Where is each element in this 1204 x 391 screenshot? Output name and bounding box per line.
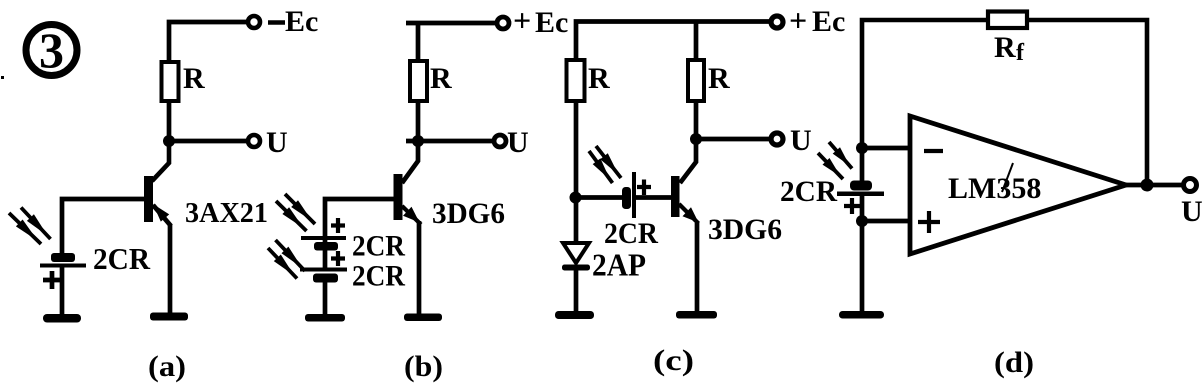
node base junction (c) — [570, 192, 582, 204]
svg-text:R: R — [183, 62, 205, 95]
wire node to U terminal (a) — [169, 139, 247, 144]
svg-text:LM358: LM358 — [948, 172, 1041, 205]
op-amp U1 LM358 triangle — [910, 116, 1126, 254]
terminal U (c) — [771, 133, 783, 145]
scan artifact stroke over LM358 — [1002, 163, 1013, 192]
wire right branch to node (c) — [694, 101, 699, 139]
op-amp plus input symbol — [918, 211, 940, 233]
resistor R (a) — [162, 62, 179, 101]
photodiode 2AP (c) — [562, 243, 590, 271]
photocell 2CR plates (c) — [622, 172, 636, 218]
svg-text:U: U — [790, 124, 812, 157]
svg-text:2CR: 2CR — [93, 241, 151, 276]
svg-text:R: R — [708, 62, 730, 95]
transistor 3DG6 emitter with NPN arrow (b) — [402, 206, 421, 314]
wire noninverting input (d) — [862, 219, 910, 224]
resistor R right (c) — [688, 60, 704, 101]
wire cell top (d) — [860, 148, 865, 181]
light arrows into 2CR cell 2 (b) — [268, 240, 305, 279]
terminal U (b) — [494, 135, 506, 147]
wire top rail (b) — [406, 23, 495, 61]
svg-text:(a): (a) — [148, 350, 186, 383]
transistor 3AX21 emitter with PNP arrow — [153, 204, 171, 313]
label -Ec — [268, 5, 318, 38]
wire base lead (b) — [325, 199, 395, 237]
svg-text:2AP: 2AP — [592, 247, 646, 283]
ground bar left (b) — [305, 314, 345, 322]
node collector junction (a) — [163, 135, 175, 147]
resistor Rf (d) — [988, 12, 1027, 29]
photocell 2CR cell 1 plates (b) — [301, 236, 346, 251]
wire top rail (a) — [169, 22, 247, 62]
wire inverting input (d) — [862, 146, 910, 151]
photocell 2CR cell 2 plates (b) — [300, 268, 347, 283]
svg-text:2CR: 2CR — [352, 230, 405, 263]
plus sign of 2CR (c) — [637, 180, 651, 196]
svg-text:(d): (d) — [994, 346, 1034, 379]
terminal U (a) — [248, 135, 260, 147]
terminal +Ec (c) — [771, 16, 783, 28]
op-amp minus input symbol — [924, 149, 943, 153]
light arrows into 2CR cell 1 (b) — [276, 194, 315, 231]
ground bar emitter (a) — [150, 313, 188, 321]
resistor R (b) — [410, 61, 427, 101]
label +Ec (b) — [513, 2, 568, 39]
resistor R left (c) — [567, 60, 585, 101]
svg-text:Ec: Ec — [812, 5, 845, 38]
light arrows into 2CR (d) — [818, 142, 852, 179]
node output junction (d) — [1141, 179, 1154, 192]
plus sign of 2CR cell 1 (b) — [331, 218, 345, 233]
wire between cells (b) — [323, 240, 328, 268]
wire base lead (a) — [62, 199, 144, 254]
svg-text:3DG6: 3DG6 — [708, 213, 782, 246]
ground bar left (c) — [555, 311, 594, 319]
photocell 2CR plates (d) — [837, 181, 884, 197]
svg-text:3: 3 — [39, 22, 64, 78]
transistor Q 3AX21 base bar — [144, 176, 153, 222]
wire cell to plus node (d) — [860, 196, 865, 311]
terminal -Ec — [248, 16, 260, 28]
svg-text:U: U — [1181, 195, 1203, 228]
plus sign of 2CR (a) — [43, 271, 61, 289]
figure number 3 (circled) — [26, 22, 77, 78]
light arrows into 2CR (a) — [9, 208, 51, 245]
svg-text:R: R — [994, 31, 1016, 64]
wire resistor to node (b) — [416, 101, 421, 141]
svg-text:2CR: 2CR — [604, 217, 658, 250]
wire left branch (c) — [574, 101, 579, 244]
light arrows into 2CR (c) — [589, 146, 621, 183]
wire node to U terminal (c) — [696, 137, 769, 142]
speck — [1, 76, 4, 79]
svg-text:3DG6: 3DG6 — [432, 197, 505, 230]
ground bar emitter (b) — [404, 314, 442, 322]
wire collector lead (a) — [152, 141, 169, 181]
wire top rail left (d) — [862, 20, 990, 148]
wire resistor to node (a) — [167, 101, 172, 141]
svg-text:R: R — [430, 62, 452, 95]
svg-text:U: U — [266, 126, 288, 159]
transistor 3DG6 emitter with NPN arrow (c) — [679, 204, 699, 312]
svg-text:Ec: Ec — [535, 6, 568, 39]
transistor Q 3DG6 base bar (c) — [671, 176, 680, 217]
wire op-amp output (d) — [1126, 183, 1183, 188]
wire node to 2CR cell (c) — [575, 195, 623, 200]
wire cell 2 to ground (b) — [323, 282, 328, 315]
ground bar emitter (c) — [676, 311, 717, 319]
svg-text:R: R — [588, 62, 610, 95]
label +Ec (c) — [789, 2, 845, 38]
svg-text:Ec: Ec — [285, 5, 318, 38]
svg-text:f: f — [1016, 40, 1025, 66]
photocell 2CR (a) plates — [40, 253, 86, 268]
svg-text:U: U — [507, 126, 529, 159]
node collector junction (c) — [690, 133, 702, 145]
wire 2CR to base (c) — [636, 195, 671, 200]
label Rf (d) — [994, 31, 1025, 66]
svg-text:3AX21: 3AX21 — [185, 197, 268, 229]
transistor Q 3DG6 base bar (b) — [394, 174, 403, 220]
ground bar left (a) — [43, 314, 81, 323]
wire 2AP to ground (c) — [574, 270, 579, 312]
svg-text:+: + — [513, 2, 531, 38]
wire top rail (c) — [576, 22, 769, 61]
terminal U (d) — [1184, 179, 1197, 192]
plus sign of 2CR cell 2 (b) — [331, 251, 345, 266]
node collector junction (b) — [412, 135, 424, 147]
plus sign of 2CR (d) — [844, 198, 860, 214]
wire top rail right (d) — [1025, 20, 1147, 185]
wire collector lead (b) — [402, 141, 418, 183]
wire collector lead (c) — [680, 139, 696, 183]
node noninverting input (d) — [856, 215, 868, 227]
svg-text:(c): (c) — [653, 344, 694, 377]
svg-text:(b): (b) — [404, 350, 443, 383]
svg-text:2CR: 2CR — [352, 260, 405, 293]
wire 2CR to ground (a) — [60, 267, 65, 315]
svg-text:+: + — [789, 2, 807, 38]
wire node to U terminal (b) — [406, 139, 493, 144]
ground bar (d) — [839, 311, 884, 319]
node inverting input (d) — [856, 142, 868, 154]
svg-text:2CR: 2CR — [780, 175, 837, 208]
terminal +Ec (b) — [497, 17, 509, 29]
